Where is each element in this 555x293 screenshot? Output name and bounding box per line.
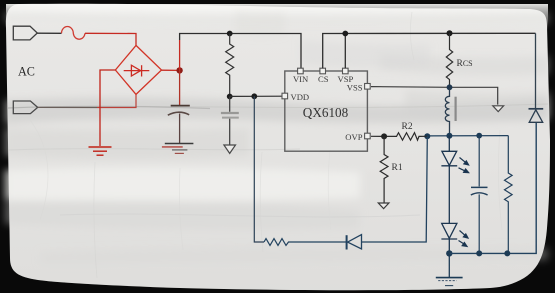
fuse F1 [62, 26, 86, 39]
wire feedback [254, 96, 264, 242]
node N6 (VSS / RCS bottom) [447, 84, 453, 90]
svg-text:QX6108: QX6108 [303, 105, 349, 120]
resistor R3 (dummy load) [505, 136, 513, 254]
LED D4 [441, 223, 457, 253]
svg-text:CS: CS [318, 74, 329, 84]
resistor R2 [395, 133, 428, 140]
IC U1 QX6108 [285, 71, 368, 151]
wire DC+ riser [179, 40, 181, 70]
node N12 (R3 bottom) [504, 250, 510, 256]
resistor RCS [446, 33, 452, 87]
svg-text:RCS: RCS [457, 59, 473, 69]
wire VSP riser [344, 34, 346, 69]
resistor R1 [380, 136, 388, 203]
svg-text:R1: R1 [392, 163, 403, 173]
wire fuse to bridge AC top [85, 33, 136, 45]
wire bottom rail [449, 122, 536, 253]
wire VIN rail [180, 34, 301, 69]
ground GND4 (arrow) [493, 106, 504, 112]
node N13 (OVP / R1 tap) [381, 133, 387, 139]
node N3 (VDD net, feedback tap) [251, 93, 257, 99]
pin OVP [365, 133, 371, 139]
node N8 (LED string top) [446, 133, 452, 139]
pin VIN [298, 68, 304, 74]
inductor L1 [445, 87, 449, 136]
node N2 (VDD net, C2 top) [227, 94, 233, 100]
svg-text:AC: AC [18, 65, 35, 79]
node N11 (C3 bottom) [476, 250, 482, 256]
capacitor C2 (VDD) [229, 97, 231, 112]
wire output rail [427, 135, 508, 137]
ground GND3 [224, 145, 236, 153]
ground GND5 [436, 253, 463, 285]
wire CS/VSP rail [323, 33, 536, 68]
pin CS [320, 68, 326, 74]
resistor R5 (startup) [226, 34, 234, 97]
pin VDD [282, 93, 288, 99]
svg-text:R2: R2 [402, 122, 413, 132]
wire N-terminal [38, 106, 97, 108]
terminal J1 (AC line input) [13, 26, 37, 40]
svg-text:OVP: OVP [345, 132, 362, 142]
ground GND6 (arrow) [378, 203, 389, 209]
wire VDD rail [230, 95, 282, 97]
wire VSS [371, 87, 498, 105]
LED D3 [441, 136, 457, 224]
pin VSP [343, 68, 349, 74]
ground GND2 [162, 144, 194, 154]
svg-text:VIN: VIN [293, 74, 309, 84]
wire OVP [371, 135, 395, 137]
node N7 (R2 right, OVP divider top) [424, 133, 430, 139]
wire feedback bottom to OVP divider [362, 136, 428, 242]
bridge diode symbol [124, 65, 150, 76]
diode D2 (freewheel) [535, 33, 537, 109]
wire L-terminal to fuse [37, 32, 61, 34]
core bar [455, 97, 457, 121]
node N10 (LED string bottom) [446, 250, 452, 256]
terminal J2 (AC neutral input) [13, 101, 37, 114]
ground GND1 [89, 147, 112, 155]
node DC+ [176, 67, 182, 73]
capacitor C3 (output) [471, 136, 488, 254]
diode D1 [347, 235, 362, 250]
wire bridge minus to ground [100, 70, 115, 146]
wire to bridge AC bottom [97, 94, 136, 107]
node N9 (C3 top) [476, 133, 482, 139]
svg-text:VDD: VDD [291, 92, 310, 102]
capacitor C1 (electrolytic) [179, 70, 181, 105]
resistor R4 [264, 239, 347, 246]
node N5 (RCS top, CS rail) [447, 30, 453, 36]
svg-text:VSS: VSS [347, 83, 363, 93]
wire bridge output to DC+ node [162, 69, 180, 71]
node N4 (VSP/CS rail join) [342, 31, 348, 37]
node N1 (startup resistor top) [227, 31, 233, 37]
bridge rectifier BR1 [115, 45, 161, 94]
pin VSS [365, 84, 371, 90]
